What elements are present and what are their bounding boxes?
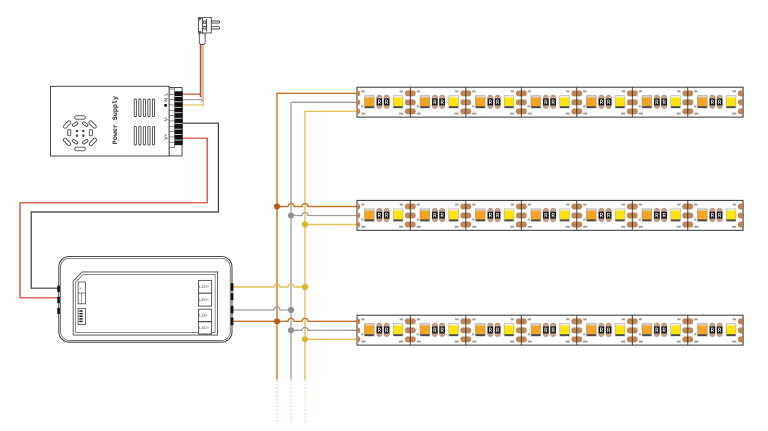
svg-text:LED+: LED+: [199, 325, 210, 330]
svg-text:+: +: [79, 287, 81, 291]
svg-text:LED+: LED+: [199, 297, 210, 302]
svg-text:N: N: [163, 98, 169, 102]
svg-text:V-: V-: [163, 116, 169, 121]
svg-text:V+: V+: [163, 133, 169, 139]
svg-text:Power Supply: Power Supply: [112, 96, 120, 144]
svg-text:-: -: [79, 297, 80, 301]
svg-text:LED+: LED+: [199, 284, 210, 289]
svg-text:L: L: [163, 93, 169, 96]
svg-text:LED-: LED-: [199, 313, 209, 318]
